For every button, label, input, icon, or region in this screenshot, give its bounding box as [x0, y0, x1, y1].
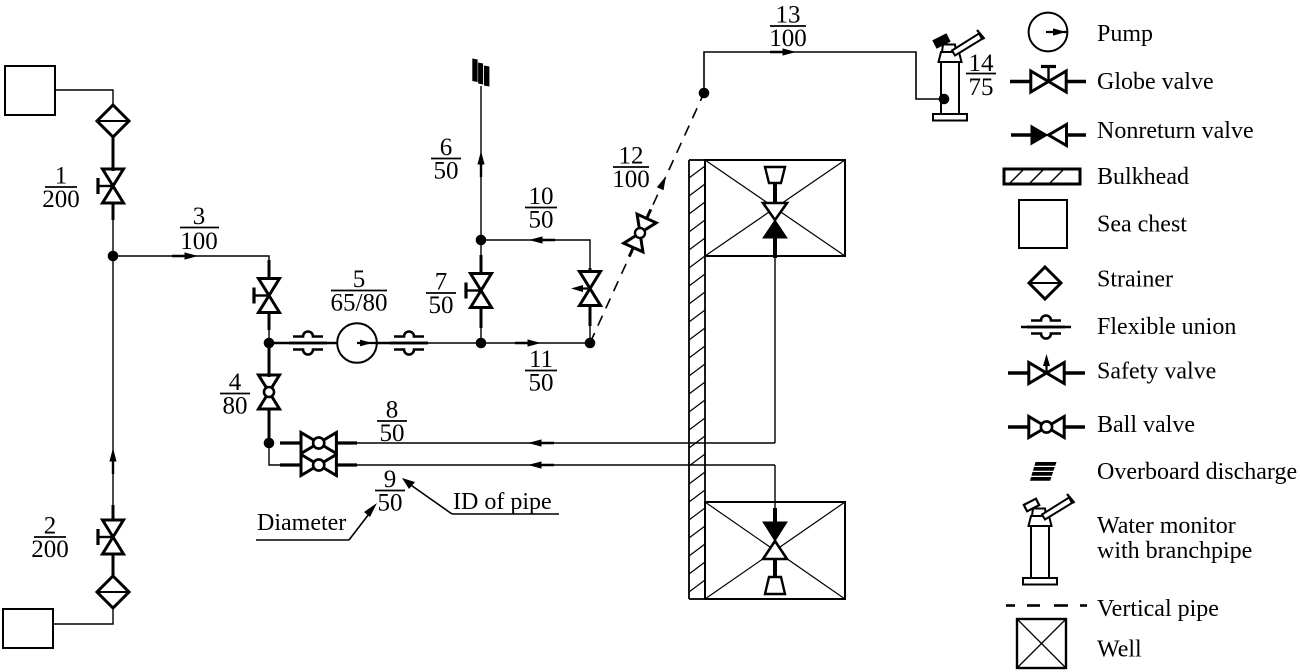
svg-text:ID of pipe: ID of pipe	[453, 489, 552, 515]
svg-text:with branchpipe: with branchpipe	[1097, 538, 1252, 564]
svg-text:100: 100	[612, 166, 650, 193]
svg-text:Strainer: Strainer	[1097, 267, 1173, 293]
svg-text:200: 200	[42, 186, 80, 213]
svg-text:Sea chest: Sea chest	[1097, 212, 1187, 238]
svg-text:50: 50	[529, 207, 554, 234]
svg-text:200: 200	[31, 536, 69, 563]
svg-text:Overboard discharge: Overboard discharge	[1097, 459, 1297, 485]
svg-text:75: 75	[969, 74, 994, 101]
svg-text:Water monitor: Water monitor	[1097, 513, 1236, 539]
svg-text:80: 80	[223, 393, 248, 420]
svg-text:Nonreturn valve: Nonreturn valve	[1097, 118, 1254, 144]
svg-text:Vertical pipe: Vertical pipe	[1097, 596, 1219, 622]
svg-text:Globe valve: Globe valve	[1097, 69, 1214, 95]
svg-text:50: 50	[378, 490, 403, 517]
svg-text:Well: Well	[1097, 637, 1142, 663]
svg-text:100: 100	[180, 228, 218, 255]
svg-text:Bulkhead: Bulkhead	[1097, 164, 1189, 190]
svg-text:3: 3	[193, 203, 206, 230]
svg-text:50: 50	[434, 158, 459, 185]
svg-text:50: 50	[429, 292, 454, 319]
svg-text:Diameter: Diameter	[257, 510, 346, 536]
svg-text:Pump: Pump	[1097, 21, 1153, 47]
svg-text:Flexible union: Flexible union	[1097, 314, 1236, 340]
svg-text:100: 100	[769, 25, 807, 52]
svg-text:50: 50	[529, 370, 554, 397]
svg-text:65/80: 65/80	[331, 290, 388, 317]
svg-text:Safety valve: Safety valve	[1097, 359, 1216, 385]
svg-text:Ball valve: Ball valve	[1097, 412, 1195, 438]
svg-text:50: 50	[380, 420, 405, 447]
